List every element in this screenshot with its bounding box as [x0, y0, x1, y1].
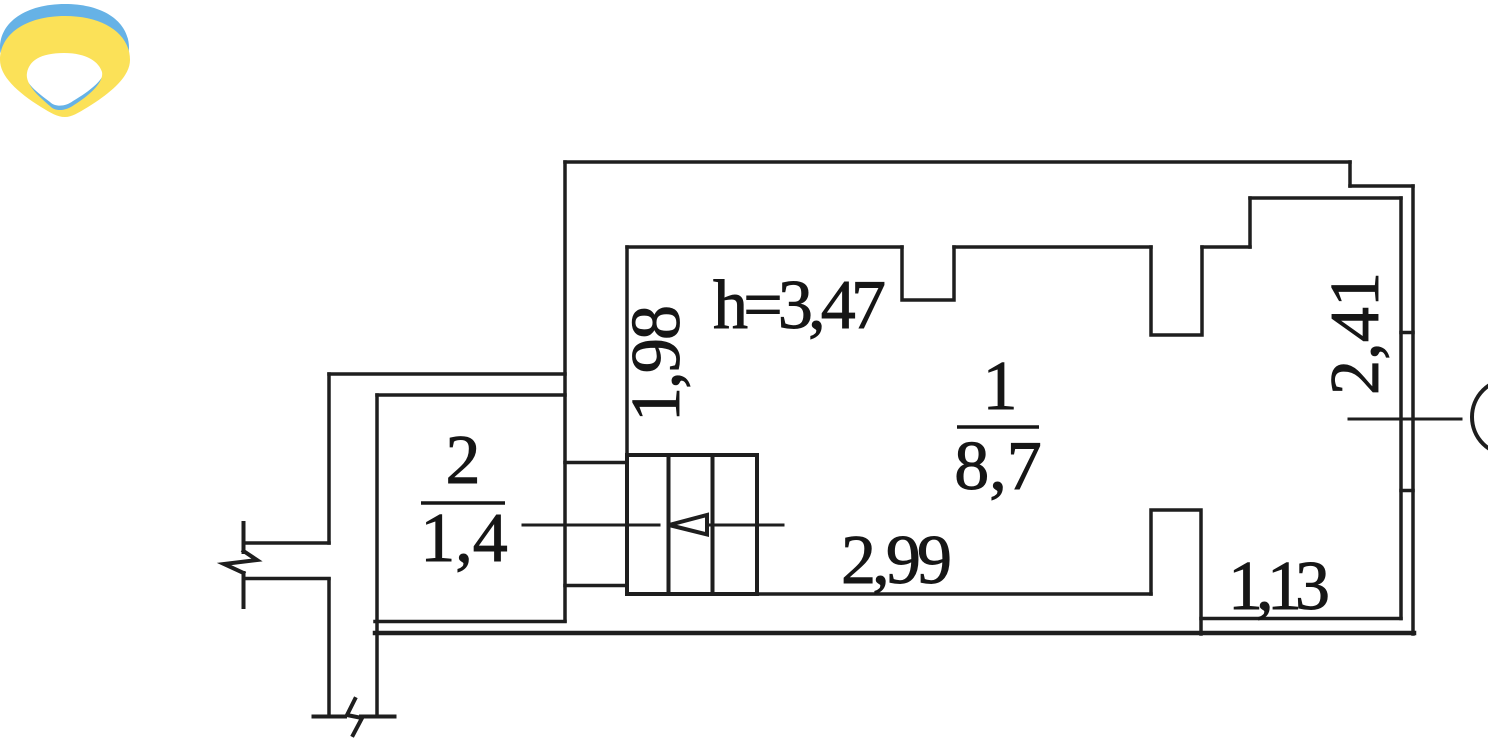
room 2 fraction bar [421, 501, 505, 505]
wall: room1 left edge [625, 247, 629, 455]
wall: inner step vertical [1248, 198, 1252, 247]
leader line right wall [1349, 418, 1461, 421]
wall: top-right outer horizontal [1350, 184, 1413, 188]
break symbol bottom: zigzag [347, 699, 362, 735]
wall: outer left vertical [563, 162, 567, 621]
svg-text:1,98: 1,98 [618, 305, 695, 422]
leader line room2 label [523, 524, 783, 527]
wall: outer bottom [375, 631, 1414, 636]
svg-text:8,7: 8,7 [954, 428, 1042, 505]
wall: right outer vertical [1411, 186, 1415, 634]
door swing arrow [669, 515, 707, 535]
wall: door connector upper [565, 461, 627, 465]
svg-text:1,13: 1,13 [1228, 548, 1330, 625]
svg-text:2,99: 2,99 [841, 522, 952, 599]
break symbol left: zigzag [224, 551, 257, 573]
wall: corridor left vertical [327, 374, 331, 716]
wall: top-right inner horizontal [1250, 196, 1401, 200]
wall: bottom niche [1151, 510, 1201, 634]
wall: room2 box top [377, 393, 565, 397]
room 1 fraction bar [957, 425, 1039, 429]
door leaf divider 2 [711, 455, 715, 594]
door assembly box [627, 455, 757, 594]
logo: blue backing shape [0, 4, 129, 115]
svg-text:2,41: 2,41 [1317, 272, 1394, 395]
window tick upper on right wall [1401, 331, 1413, 335]
wall: room1 bottom inner edge [757, 592, 1151, 596]
wall stub to left break [246, 543, 329, 579]
wall: door connector lower [565, 584, 627, 588]
wall: bottom inner right segment [1201, 617, 1401, 621]
door leaf divider 1 [667, 455, 671, 594]
wall: niche 1 top wall [902, 247, 954, 300]
svg-text:h=3,47: h=3,47 [713, 267, 886, 344]
break symbol left: ticks [242, 523, 246, 607]
window tick lower on right wall [1401, 489, 1413, 493]
svg-text:1,4: 1,4 [420, 500, 508, 577]
wall: room2 top outer [329, 372, 565, 376]
svg-text:2: 2 [446, 422, 481, 499]
wall: right inner vertical [1399, 198, 1403, 619]
logo: yellow ring [0, 16, 130, 117]
wall: room2 left vertical [375, 395, 379, 716]
logo: white hole [25, 51, 104, 106]
wall: room2 bottom [375, 620, 565, 624]
wall: room1 inner top edge [627, 245, 1250, 249]
break symbol bottom: ticks [314, 715, 395, 719]
svg-text:1: 1 [983, 348, 1018, 425]
door arc fragment at right edge [1472, 379, 1488, 455]
wall: niche 2 top wall [1151, 247, 1202, 335]
wall: outer top [565, 160, 1350, 164]
wall: top-right step down [1348, 162, 1352, 186]
